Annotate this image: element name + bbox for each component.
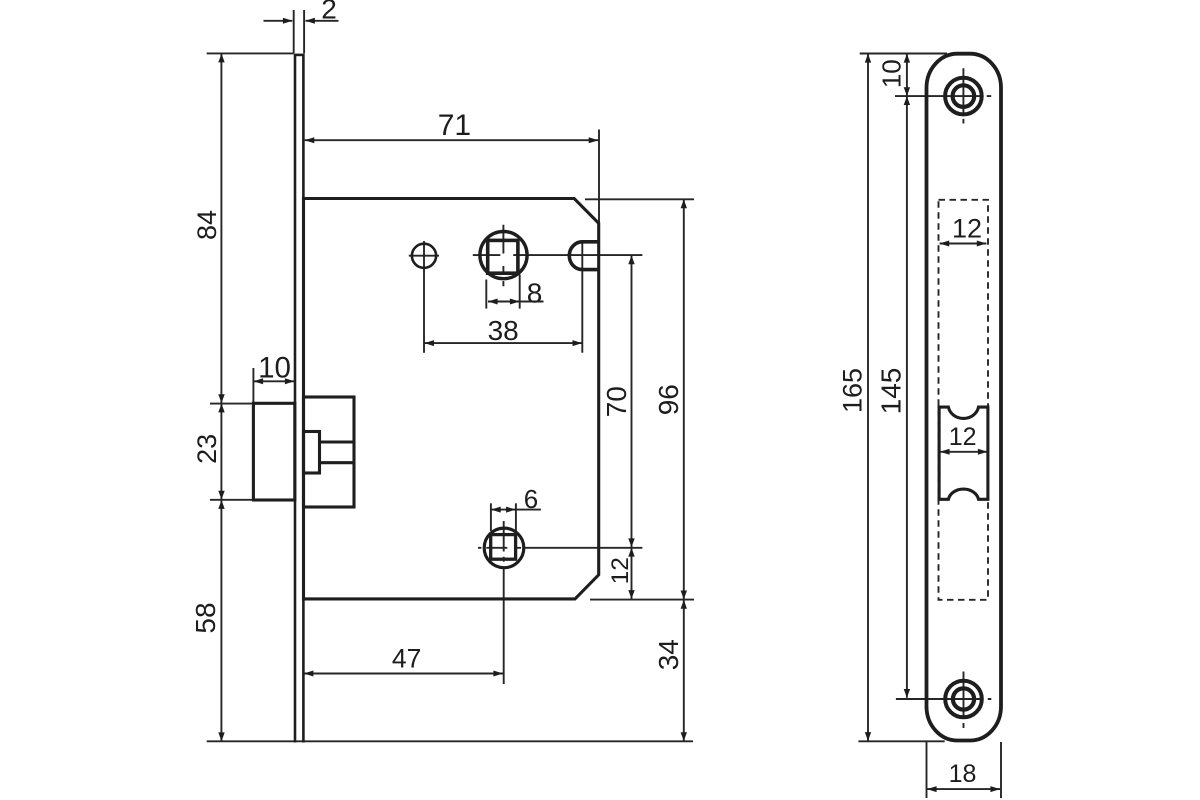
ext 34 top [590, 599, 694, 601]
arrow dim96 top [681, 200, 687, 209]
center top screw h [895, 95, 991, 97]
top screw hole inner [953, 85, 975, 107]
svg-text:96: 96 [653, 384, 684, 415]
center line h small hole [409, 255, 439, 257]
arrow dim165 top [865, 54, 871, 63]
dim 10 line [254, 380, 295, 382]
svg-text:58: 58 [190, 602, 221, 633]
latch slot on edge [569, 242, 600, 270]
ext 165 bottom [858, 740, 944, 742]
arrow dim23 top [218, 404, 224, 413]
ext 8 right [519, 275, 521, 309]
arrow dim58 bottom [218, 732, 224, 741]
svg-text:70: 70 [601, 386, 632, 417]
arrow dim38 right [573, 340, 583, 346]
arrow dim84 top [218, 54, 224, 63]
arrow dim145 top [904, 96, 910, 105]
ext 8 left [485, 280, 487, 309]
arrow dim6 right [506, 507, 516, 513]
center line v spindle [502, 225, 504, 286]
arrow dim18 right [990, 786, 1000, 792]
faceplate side view top cap [295, 54, 303, 57]
arrow dim12side bottom [628, 590, 634, 599]
arrow dim10r top [904, 54, 910, 63]
arrow dim70 bottom [628, 538, 634, 547]
ext 18 right [1000, 742, 1002, 798]
arrow dim12side top [628, 548, 634, 557]
dim 10-145 vertical line [906, 54, 908, 698]
dim 6 line [491, 509, 541, 511]
arrow dim2 right (points left) [305, 18, 315, 24]
bottom square hole [491, 535, 516, 560]
ext 10 left [252, 368, 254, 403]
svg-text:6: 6 [524, 484, 538, 514]
bottom screw hole inner [953, 688, 974, 709]
arrow dim12mid left [940, 449, 950, 455]
lock body outline [304, 199, 599, 599]
faceplate side view left line [294, 54, 297, 743]
svg-text:8: 8 [527, 277, 543, 308]
arrow dim8 left [488, 299, 498, 305]
ext 6 left [490, 503, 492, 531]
svg-text:12: 12 [952, 214, 982, 244]
arrow dim70 top [628, 255, 634, 264]
arrow dim165 bottom [865, 732, 871, 741]
center bottom screw h [896, 698, 991, 700]
arrow dim34 top [681, 600, 687, 609]
latch stem line lower [320, 461, 355, 464]
ext 23 bottom [210, 499, 253, 501]
arrow dim84 bottom [218, 394, 224, 403]
center line h spindle [473, 254, 643, 256]
arrow dim47 left [304, 671, 314, 677]
svg-text:145: 145 [875, 368, 906, 415]
svg-text:12: 12 [607, 557, 634, 584]
svg-text:165: 165 [838, 368, 868, 413]
arrow dim10 left [254, 378, 264, 384]
dim 71 right extension [598, 130, 600, 224]
spindle hole circle [480, 232, 527, 279]
svg-text:12: 12 [949, 423, 977, 451]
dim 12 mid line [940, 451, 988, 453]
ext 18 left [926, 742, 928, 798]
dim 12 top line [940, 243, 987, 245]
svg-text:84: 84 [192, 210, 222, 240]
faceplate front view outline [927, 54, 1002, 741]
arrow dim145 bottom [904, 689, 910, 698]
arrow dim47 right [493, 671, 503, 677]
arrow dim38 left [424, 340, 434, 346]
arrow dim34 bottom [681, 732, 687, 741]
ext 96 top [585, 198, 694, 200]
arrow dim12mid right [978, 449, 988, 455]
bottom square hole circle [484, 528, 524, 568]
dim 96-34 vertical line [683, 200, 685, 742]
arrow dim6 left [491, 507, 501, 513]
arrow dim10 right [285, 378, 295, 384]
arrow dim12top right [977, 241, 987, 247]
svg-text:71: 71 [438, 109, 471, 142]
dim 8 line [488, 301, 544, 303]
svg-text:18: 18 [949, 760, 977, 788]
center top screw v [962, 68, 964, 123]
ext 23 top [210, 403, 253, 405]
arrow dim12top left [940, 241, 950, 247]
dim 70-12 vertical line [631, 255, 633, 599]
arrow dim71 right [589, 137, 599, 143]
dim 71 line [305, 139, 599, 141]
arrow dim71 left [305, 137, 315, 143]
arrow dim18 left [927, 786, 937, 792]
svg-text:47: 47 [392, 643, 421, 673]
svg-text:2: 2 [321, 0, 337, 24]
center line v bottom hole ext [503, 521, 505, 684]
dim 38 line [424, 342, 582, 344]
latch bolt head rect [253, 403, 294, 500]
latch cutout with notches [939, 407, 988, 499]
dim 2 extension lines [294, 10, 304, 54]
dim 165 line [867, 54, 869, 741]
top screw hole outer [945, 78, 982, 115]
bottom screw hole outer [945, 681, 982, 718]
arrow dim96 bottom [681, 591, 687, 600]
latch tail rect [304, 432, 320, 474]
ext 165 top [860, 53, 947, 55]
dim 84-23-58 vertical line [220, 54, 222, 742]
ext 38 right [581, 241, 583, 353]
faceplate side view right line [302, 54, 305, 743]
spindle square hole [488, 240, 518, 273]
center line h bottom hole [478, 547, 642, 549]
center line v small hole ext [423, 241, 425, 353]
dashed cutout rect [939, 200, 989, 600]
dim 2 line [264, 20, 339, 22]
arrow dim2 left (points right) [283, 18, 293, 24]
svg-text:38: 38 [488, 315, 519, 346]
ext 84 top [207, 52, 294, 54]
dim 47 line [304, 673, 503, 675]
latch stem line upper [320, 440, 355, 443]
ext bottom long [207, 740, 693, 742]
small fixing hole [412, 244, 436, 268]
arrow dim10r bottom [904, 87, 910, 96]
center bottom screw v [963, 672, 965, 729]
svg-text:34: 34 [653, 639, 684, 670]
svg-text:23: 23 [192, 434, 222, 464]
ext 6 right [515, 503, 517, 531]
svg-text:10: 10 [258, 352, 291, 385]
arrow dim8 right [510, 299, 520, 305]
arrow dim58 top [218, 500, 224, 509]
svg-text:10: 10 [877, 59, 907, 88]
dim 18 line [927, 788, 1000, 790]
arrow dim23 bottom [218, 491, 224, 500]
latch housing rect [304, 397, 355, 507]
